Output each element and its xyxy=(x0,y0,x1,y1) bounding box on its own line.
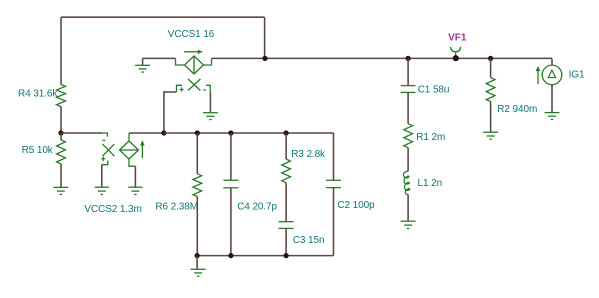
wire C2 bottom stem xyxy=(333,188,335,256)
node VF1 xyxy=(453,55,459,61)
node bottom bus R6 xyxy=(195,253,200,258)
svg-text:R3 2.8k: R3 2.8k xyxy=(291,149,326,160)
wire R2 top stem xyxy=(490,58,492,77)
wire vertical drop at x=265 xyxy=(264,17,266,58)
wire R3 to C3 xyxy=(285,183,287,222)
wire bottom bus xyxy=(197,255,333,257)
node bottom bus C4 xyxy=(228,253,233,258)
wire C4 bottom stem xyxy=(230,188,232,256)
ground IG1 xyxy=(545,113,560,120)
wire R6 bottom stem xyxy=(196,197,198,256)
capacitor C3 xyxy=(279,222,294,229)
wire VCCS2 control bottom to ground xyxy=(101,165,103,188)
wire IG1 top lead xyxy=(551,58,553,65)
wire C2 branch xyxy=(333,133,335,180)
wire R5 to ground xyxy=(60,164,62,188)
wire mid bus to VCCS2 xyxy=(61,132,102,134)
svg-text:C1 58u: C1 58u xyxy=(418,84,450,95)
svg-text:R4 31.6k: R4 31.6k xyxy=(18,88,58,99)
wire top-left horizontal bus xyxy=(61,16,265,18)
bracket VCCS1 control right xyxy=(206,85,210,92)
node C4 top xyxy=(228,130,233,135)
bracket VCCS2 control top xyxy=(102,133,107,137)
wire L1 to ground xyxy=(407,194,409,221)
op VCCS2 output diamond xyxy=(120,133,139,166)
svg-text:R2 940m: R2 940m xyxy=(497,104,537,115)
svg-text:C2 100p: C2 100p xyxy=(337,200,375,211)
ground VCCS2 control xyxy=(95,187,109,194)
svg-text:VCCS1 16: VCCS1 16 xyxy=(168,29,215,40)
wire C3 bottom stem xyxy=(285,228,287,255)
plus mark VCCS2 xyxy=(101,157,105,161)
plus mark VCCS1 xyxy=(180,87,184,91)
ground R5 xyxy=(53,187,68,194)
svg-text:L1 2n: L1 2n xyxy=(418,178,443,189)
capacitor C4 xyxy=(223,180,238,188)
node VCCS1 control junction xyxy=(161,130,166,135)
ground VCCS2 output xyxy=(128,187,142,194)
triangle IG1 xyxy=(548,70,555,77)
wire VCCS2 diamond top to node xyxy=(129,132,164,134)
capacitor C1 xyxy=(401,86,416,93)
op VCCS1 output diamond xyxy=(176,56,212,74)
source IG1 xyxy=(542,65,562,85)
arrow VCCS1 current direction xyxy=(184,51,199,53)
arrow VCCS2 current direction xyxy=(141,145,143,159)
node R2 top xyxy=(488,56,493,61)
arrow IG1 direction xyxy=(537,71,539,85)
node R4/R5 junction xyxy=(58,130,63,135)
wire VCCS1 control right to ground xyxy=(209,92,211,113)
node R3 top xyxy=(284,130,289,135)
svg-text:IG1: IG1 xyxy=(569,70,585,81)
wire C1 to R1 xyxy=(407,92,409,123)
wire top bus right (VCCS1 output to IG1) xyxy=(212,57,553,59)
resistor R6 xyxy=(193,174,202,197)
wire ground stem VCCS1 left xyxy=(142,58,144,65)
bracket VCCS2 control bottom xyxy=(102,161,108,165)
svg-text:C4 20.7p: C4 20.7p xyxy=(237,202,277,213)
op VCCS2 control X xyxy=(102,144,114,156)
ground R2 xyxy=(483,132,498,139)
wire R1 to L1 xyxy=(407,148,409,172)
wire C4 top stem xyxy=(230,133,232,180)
node top-left feed junction xyxy=(262,56,267,61)
wire R3 top stem xyxy=(285,133,287,159)
ground L1 xyxy=(401,221,416,228)
bracket VCCS1 control left xyxy=(177,85,183,92)
op VCCS1 control X xyxy=(188,79,200,91)
resistor R2 xyxy=(486,78,495,102)
wire bottom ground stem xyxy=(196,256,198,270)
minus mark VCCS1 xyxy=(203,89,206,91)
ground VCCS1 control xyxy=(203,113,218,120)
wire R4 bottom to node xyxy=(60,107,62,134)
svg-text:R1 2m: R1 2m xyxy=(416,132,445,143)
wire top-left vertical (to R4) xyxy=(60,17,62,84)
resistor R3 xyxy=(282,159,291,183)
node R6 top xyxy=(195,130,200,135)
wire IG1 bottom lead xyxy=(551,85,553,113)
wire VCCS1 control left to node xyxy=(164,92,177,133)
capacitor C2 xyxy=(326,180,341,187)
ground bottom bus xyxy=(191,269,206,276)
ground VCCS1 left xyxy=(135,65,150,72)
node bottom bus C3 xyxy=(284,253,289,258)
svg-text:C3 15n: C3 15n xyxy=(293,235,325,246)
minus mark VCCS2 xyxy=(103,139,106,141)
wire R6 top stem xyxy=(196,133,198,174)
inductor L1 xyxy=(403,171,409,194)
wire VCCS1 left terminal to ground xyxy=(143,57,176,59)
resistor R1 xyxy=(404,124,413,148)
probe VF1 xyxy=(451,47,461,59)
svg-text:VF1: VF1 xyxy=(448,32,467,43)
wire mid bus (node to C2 branch) xyxy=(164,132,334,134)
wire VCCS2 diamond bottom to ground xyxy=(134,166,136,187)
wire R2 to ground xyxy=(490,102,492,133)
node C1 top xyxy=(406,56,411,61)
svg-text:VCCS2 1.3m: VCCS2 1.3m xyxy=(84,204,141,215)
wire C1 top stem xyxy=(407,58,409,85)
resistor R4 xyxy=(57,85,66,107)
svg-text:R5 10k: R5 10k xyxy=(22,145,54,156)
resistor R5 xyxy=(60,133,62,140)
svg-text:R6 2.38M: R6 2.38M xyxy=(155,202,198,213)
